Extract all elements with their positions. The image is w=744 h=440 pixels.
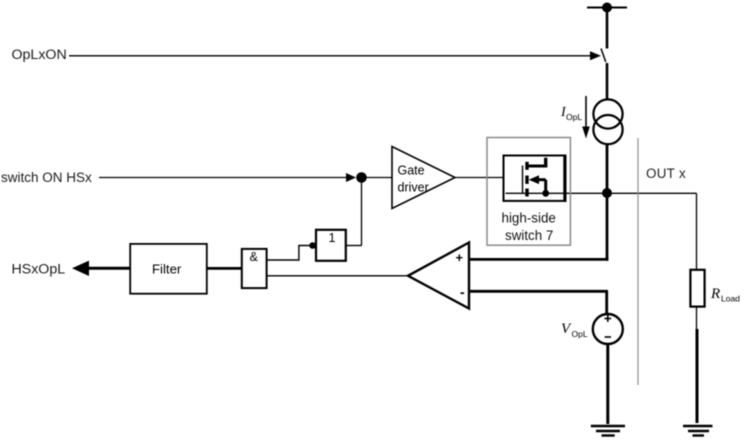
op-amp comparator U2	[408, 243, 469, 309]
wire junction down	[361, 178, 363, 246]
wire comparator plus input	[469, 258, 608, 261]
svg-text:+: +	[456, 250, 464, 265]
wire OUT to R_Load	[696, 193, 698, 270]
svg-text:-: -	[460, 284, 465, 300]
svg-text:Load: Load	[721, 294, 740, 304]
transistor Q1 (MOSFET)	[522, 166, 524, 194]
AND gate G1	[242, 249, 267, 288]
current arrow I_OpL	[585, 96, 587, 129]
wire R_Load to ground thick	[696, 329, 699, 423]
node OUT	[602, 188, 612, 198]
voltage source V_OpL	[593, 314, 623, 344]
box Filter F1	[130, 244, 207, 294]
svg-text:R: R	[710, 286, 720, 302]
svg-text:driver: driver	[398, 181, 429, 195]
svg-text:1: 1	[329, 231, 336, 245]
wire V_OpL to ground	[606, 344, 609, 424]
transistor box	[504, 156, 566, 201]
svg-text:HSxOpL: HSxOpL	[12, 262, 66, 278]
logic box 1	[316, 230, 346, 261]
wire switch ON HSx	[99, 177, 348, 179]
ground right	[683, 425, 713, 427]
wire comparator minus input	[469, 290, 608, 293]
box high-side switch 7 (gray)	[487, 138, 570, 246]
wire OpLxON control	[69, 55, 591, 57]
wire supply to switch	[606, 8, 609, 49]
wire gate driver output	[455, 177, 504, 179]
node supply top	[587, 7, 627, 9]
wire OUT horizontal	[506, 192, 697, 194]
svg-text:OUT x: OUT x	[646, 166, 686, 181]
svg-text:OpL: OpL	[566, 112, 582, 122]
current source I_OpL	[593, 99, 622, 128]
wire current source to node	[606, 144, 609, 261]
svg-text:high-side: high-side	[502, 211, 556, 226]
svg-text:Filter: Filter	[152, 262, 182, 277]
wire junction to gate driver	[362, 177, 393, 179]
wire R_Load to ground thin	[696, 307, 698, 330]
node at 1-box input	[309, 242, 316, 249]
svg-text:Gate: Gate	[398, 164, 425, 178]
svg-text:switch ON HSx: switch ON HSx	[1, 170, 92, 185]
wire switch to current source	[606, 63, 609, 100]
wire Filter to AND	[207, 267, 242, 270]
wire 1-box to junction	[346, 245, 362, 247]
wire HSxOpL output arrow	[85, 267, 130, 270]
svg-text:OpL: OpL	[572, 329, 588, 339]
op-amp gate driver U1	[392, 147, 455, 209]
node HSx junction	[356, 172, 367, 183]
wire source line inside box	[506, 192, 566, 194]
switch S1	[601, 49, 606, 63]
svg-text:&: &	[250, 250, 259, 264]
wire AND to comparator output	[267, 275, 409, 277]
svg-text:OpLxON: OpLxON	[12, 47, 67, 63]
resistor R_Load	[690, 270, 704, 307]
svg-text:switch 7: switch 7	[505, 228, 553, 243]
wire AND to 1-box	[267, 246, 313, 261]
ground middle	[591, 425, 625, 427]
net line OUT (gray)	[637, 138, 639, 385]
